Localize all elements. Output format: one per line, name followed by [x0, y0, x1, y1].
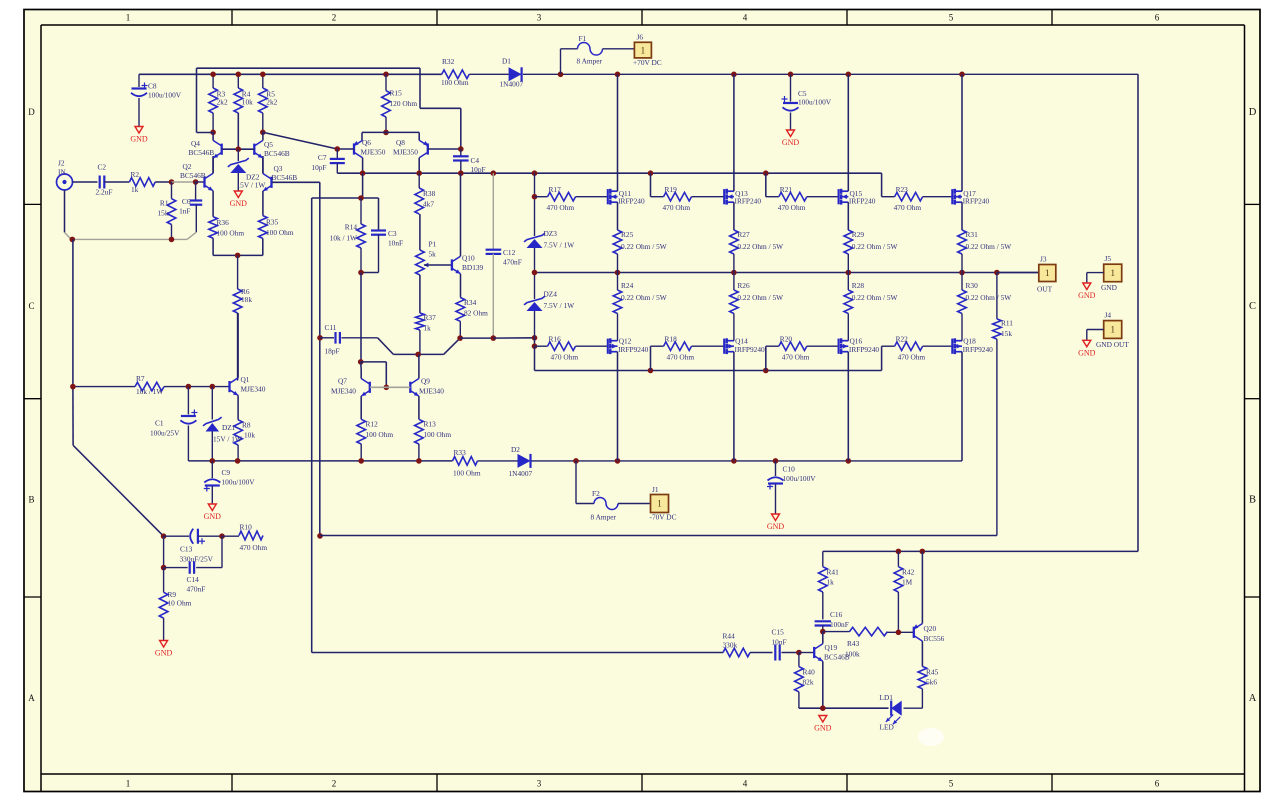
wire — [492, 254, 494, 338]
wire — [360, 444, 362, 461]
sheet frame inner — [40, 25, 42, 792]
svg-text:1M: 1M — [902, 578, 913, 587]
wire base bus — [222, 148, 255, 150]
svg-text:R32: R32 — [442, 57, 455, 66]
svg-text:R42: R42 — [902, 568, 915, 577]
svg-text:R40: R40 — [803, 668, 816, 677]
wire — [212, 156, 214, 173]
svg-text:470 Ohm: 470 Ohm — [778, 203, 806, 212]
wire input return — [64, 190, 66, 232]
wire — [847, 74, 849, 191]
svg-text:Q7: Q7 — [338, 377, 347, 386]
junction — [383, 72, 389, 78]
resistor R31 — [958, 230, 967, 254]
wire — [822, 661, 824, 708]
ground — [1083, 340, 1091, 347]
junction — [458, 170, 464, 176]
transistor Q2 — [203, 176, 205, 187]
wire diagonal to C13 — [73, 445, 164, 536]
svg-text:R23: R23 — [896, 185, 909, 194]
resistor R44 — [723, 648, 750, 657]
wire — [320, 337, 334, 339]
transistor Q20 — [913, 627, 915, 638]
svg-text:MJE340: MJE340 — [419, 387, 444, 396]
wire — [361, 272, 379, 274]
wire — [576, 503, 594, 505]
junction — [169, 179, 175, 185]
wire — [385, 117, 387, 132]
wire — [361, 197, 379, 199]
wire — [262, 74, 264, 88]
svg-text:IRFP240: IRFP240 — [735, 196, 762, 205]
svg-text:R1: R1 — [160, 199, 169, 208]
svg-text:C13: C13 — [180, 545, 193, 554]
wire — [196, 68, 198, 132]
junction — [210, 458, 216, 464]
svg-text:GND: GND — [767, 522, 785, 531]
svg-text:R19: R19 — [665, 185, 678, 194]
wire — [212, 191, 214, 217]
svg-text:10 Ohm: 10 Ohm — [168, 599, 192, 608]
svg-text:6: 6 — [1155, 13, 1160, 23]
svg-text:4k7: 4k7 — [423, 200, 434, 209]
svg-text:0.22 Ohm / 5W: 0.22 Ohm / 5W — [621, 293, 667, 302]
frame row ticks — [24, 203, 41, 205]
wire — [469, 73, 508, 75]
wire — [196, 567, 222, 569]
wire — [576, 345, 608, 347]
wire — [164, 386, 230, 388]
svg-text:1: 1 — [126, 13, 131, 23]
diode D2 — [518, 454, 531, 468]
junction — [532, 170, 538, 176]
junction — [358, 270, 364, 276]
svg-text:D: D — [28, 107, 35, 117]
wire — [961, 254, 963, 273]
wire — [650, 173, 652, 197]
svg-text:R26: R26 — [737, 281, 750, 290]
wire — [961, 352, 963, 461]
junction — [416, 170, 422, 176]
svg-text:D1: D1 — [502, 57, 511, 66]
wire — [921, 551, 923, 623]
wire — [617, 202, 619, 230]
frame column ticks — [231, 10, 233, 26]
svg-text:470 Ohm: 470 Ohm — [898, 353, 926, 362]
wire — [196, 181, 205, 183]
wire — [360, 362, 363, 370]
svg-text:BC546B: BC546B — [189, 148, 215, 157]
wire — [535, 196, 548, 198]
wire — [996, 273, 998, 319]
wire — [195, 182, 197, 200]
wire — [617, 314, 619, 341]
wire — [312, 652, 723, 654]
wire — [766, 345, 779, 347]
svg-text:Q9: Q9 — [421, 377, 430, 386]
junction — [358, 458, 364, 464]
wire — [237, 173, 239, 191]
wire — [424, 264, 452, 266]
wire — [961, 202, 963, 230]
svg-text:Q10: Q10 — [462, 254, 475, 263]
wire — [419, 68, 421, 108]
svg-text:R31: R31 — [966, 230, 979, 239]
watermark — [918, 728, 944, 746]
wire — [823, 631, 850, 633]
wire — [847, 352, 849, 461]
svg-text:LD1: LD1 — [880, 693, 894, 702]
wire — [733, 314, 735, 341]
wire — [1087, 272, 1104, 274]
junction — [458, 146, 464, 152]
capacitor C3 — [371, 229, 386, 231]
svg-text:2k2: 2k2 — [217, 98, 228, 107]
diode D1 — [509, 67, 522, 81]
junction — [358, 359, 364, 365]
transistor Q10 — [451, 259, 453, 270]
wire — [887, 631, 913, 633]
ground — [135, 127, 143, 134]
svg-text:C3: C3 — [388, 229, 397, 238]
svg-text:100 Ohm: 100 Ohm — [366, 430, 394, 439]
svg-text:C1: C1 — [155, 419, 164, 428]
wire — [493, 337, 534, 339]
junction — [615, 270, 621, 276]
wire — [692, 196, 725, 198]
svg-text:IN: IN — [58, 168, 66, 177]
wire — [961, 314, 963, 341]
svg-text:R45: R45 — [926, 668, 939, 677]
svg-text:MJE340: MJE340 — [331, 387, 356, 396]
svg-text:5: 5 — [949, 13, 954, 23]
resistor R33 — [453, 457, 478, 466]
junction — [193, 179, 199, 185]
svg-text:5k6: 5k6 — [926, 678, 937, 687]
wire — [237, 149, 239, 161]
svg-text:OUT: OUT — [1037, 285, 1053, 294]
wire — [847, 254, 849, 273]
svg-text:B: B — [28, 495, 34, 505]
wire — [775, 461, 777, 476]
svg-text:470 Ohm: 470 Ohm — [551, 353, 579, 362]
wire — [897, 592, 899, 632]
wire — [603, 48, 635, 50]
svg-text:GND: GND — [1078, 291, 1096, 300]
svg-text:F1: F1 — [579, 34, 587, 43]
wire — [213, 254, 263, 256]
wire — [237, 113, 239, 149]
junction — [796, 650, 802, 656]
svg-text:1: 1 — [1110, 325, 1115, 335]
junction — [896, 630, 902, 636]
junction — [161, 565, 167, 571]
svg-text:A: A — [1249, 693, 1257, 704]
svg-text:1k: 1k — [131, 185, 139, 194]
svg-text:470 Ohm: 470 Ohm — [663, 203, 691, 212]
svg-text:3: 3 — [537, 779, 542, 789]
wire — [881, 346, 883, 370]
resistor R14 — [357, 224, 366, 248]
wire — [807, 196, 839, 198]
wire — [393, 353, 443, 355]
junction — [384, 385, 390, 391]
wire — [312, 197, 361, 199]
wire — [65, 232, 72, 239]
svg-text:10k: 10k — [244, 431, 255, 440]
wire — [822, 551, 824, 566]
junction — [731, 72, 737, 78]
transistor Q6 — [353, 143, 355, 154]
svg-text:470 Ohm: 470 Ohm — [547, 203, 575, 212]
svg-text:BC546B: BC546B — [264, 149, 290, 158]
svg-text:15k: 15k — [157, 209, 168, 218]
wire — [523, 73, 1138, 75]
svg-text:IRFP9240: IRFP9240 — [963, 345, 994, 354]
svg-text:BC546B: BC546B — [272, 173, 298, 182]
svg-text:R15: R15 — [390, 89, 403, 98]
svg-text:R36: R36 — [217, 218, 230, 227]
svg-text:GND: GND — [814, 724, 832, 733]
resistor R8 — [234, 420, 243, 445]
wire — [419, 275, 421, 313]
wire — [782, 652, 799, 654]
svg-text:R13: R13 — [424, 420, 437, 429]
svg-text:R30: R30 — [966, 281, 979, 290]
wire — [342, 337, 378, 339]
svg-text:C16: C16 — [830, 610, 843, 619]
svg-text:R11: R11 — [1001, 319, 1013, 328]
svg-text:BC556: BC556 — [924, 634, 945, 643]
transistor Q14 — [723, 339, 725, 354]
svg-text:3: 3 — [537, 13, 542, 23]
svg-text:Q19: Q19 — [825, 643, 838, 652]
svg-text:100nF: 100nF — [830, 620, 849, 629]
connector J4 — [1104, 321, 1122, 339]
junction — [959, 72, 965, 78]
wire — [138, 74, 140, 87]
wire — [733, 202, 735, 230]
wire — [221, 536, 223, 567]
svg-text:1: 1 — [657, 499, 662, 509]
svg-text:GND: GND — [1101, 283, 1118, 292]
wire — [822, 626, 824, 632]
wire — [692, 345, 725, 347]
wire — [460, 337, 493, 339]
svg-text:IRFP9240: IRFP9240 — [735, 345, 766, 354]
svg-text:100u/100V: 100u/100V — [148, 91, 182, 100]
junction — [615, 72, 621, 78]
svg-text:IRFP240: IRFP240 — [618, 196, 645, 205]
svg-text:Q2: Q2 — [183, 162, 192, 171]
wire — [163, 536, 165, 567]
wire — [336, 163, 338, 173]
svg-text:6: 6 — [1155, 779, 1160, 789]
wire — [172, 181, 196, 183]
svg-text:J1: J1 — [652, 485, 659, 494]
svg-text:R34: R34 — [464, 298, 477, 307]
wire — [996, 339, 998, 535]
svg-text:470 Ohm: 470 Ohm — [667, 353, 695, 362]
svg-text:470 Ohm: 470 Ohm — [782, 353, 810, 362]
wire — [1137, 74, 1139, 551]
svg-text:R18: R18 — [665, 335, 678, 344]
svg-text:C11: C11 — [325, 323, 337, 332]
junction — [573, 458, 579, 464]
svg-text:2: 2 — [332, 13, 337, 23]
svg-text:C2: C2 — [98, 163, 107, 172]
svg-text:15V / 1W: 15V / 1W — [213, 435, 242, 444]
svg-text:330k: 330k — [723, 641, 738, 650]
wire — [237, 445, 239, 461]
svg-text:100u/100V: 100u/100V — [783, 474, 817, 483]
node lower gate bus — [535, 370, 882, 372]
wire — [362, 131, 419, 133]
wire — [618, 503, 651, 505]
wire — [155, 181, 171, 183]
wire — [164, 535, 189, 537]
wire Q5 collector diagonal — [263, 132, 338, 149]
junction — [615, 458, 621, 464]
wire — [361, 361, 387, 363]
svg-text:0.22 Ohm / 5W: 0.22 Ohm / 5W — [852, 293, 898, 302]
svg-text:Q6: Q6 — [362, 138, 371, 147]
junction — [532, 343, 538, 349]
wire — [211, 487, 213, 505]
svg-text:100 Ohm: 100 Ohm — [424, 430, 452, 439]
wire — [419, 214, 421, 250]
junction — [994, 270, 1000, 276]
junction — [763, 170, 769, 176]
svg-text:C: C — [1249, 301, 1256, 312]
wire Q8 base — [428, 148, 461, 150]
resistor R29 — [844, 230, 853, 254]
transistor Q15 — [838, 189, 840, 204]
wire — [460, 161, 462, 173]
wire — [617, 74, 619, 191]
resistor R35 — [259, 216, 268, 239]
transistor Q16 — [838, 339, 840, 354]
wire — [138, 98, 140, 127]
wire — [212, 113, 214, 132]
svg-text:R24: R24 — [621, 281, 634, 290]
wire — [222, 535, 239, 537]
svg-text:10k / 1W: 10k / 1W — [136, 387, 163, 396]
wire Q6 base — [337, 148, 354, 150]
svg-text:R38: R38 — [423, 189, 436, 198]
svg-text:Q3: Q3 — [274, 164, 283, 173]
svg-text:330uF/25V: 330uF/25V — [180, 555, 214, 564]
wire — [822, 592, 824, 619]
svg-text:1: 1 — [641, 45, 646, 55]
svg-text:R10: R10 — [240, 523, 253, 532]
node LED return — [799, 707, 889, 709]
wire — [237, 255, 239, 289]
svg-text:R20: R20 — [780, 335, 793, 344]
wire — [847, 273, 849, 291]
svg-text:R14: R14 — [345, 223, 358, 232]
svg-text:100 Ohm: 100 Ohm — [453, 469, 481, 478]
connector J1 — [651, 495, 669, 513]
wire — [360, 396, 362, 419]
svg-text:GND: GND — [204, 512, 222, 521]
svg-text:R22: R22 — [896, 335, 909, 344]
wire Q3 base to feedback — [272, 181, 320, 183]
wire feedback drop — [72, 239, 74, 386]
wire — [561, 48, 578, 50]
resistor R12 — [357, 419, 366, 444]
wire — [419, 330, 421, 354]
transistor Q8 — [427, 143, 429, 154]
wire — [921, 689, 923, 708]
svg-text:100 Ohm: 100 Ohm — [217, 229, 245, 238]
svg-text:10nF: 10nF — [772, 638, 787, 647]
junction — [648, 170, 654, 176]
resistor R13 — [415, 419, 424, 444]
resistor R2 — [129, 178, 155, 187]
svg-text:J5: J5 — [1105, 254, 1112, 263]
wire — [1086, 330, 1088, 341]
junction — [416, 458, 422, 464]
junction — [920, 549, 926, 555]
svg-text:DZ1: DZ1 — [222, 423, 236, 432]
wire — [262, 113, 264, 132]
wire — [163, 618, 165, 640]
wire — [211, 461, 213, 478]
wire — [362, 173, 364, 198]
wire — [534, 338, 536, 346]
wire — [360, 273, 362, 362]
wire — [262, 132, 264, 140]
wire — [361, 132, 363, 140]
wire — [847, 202, 849, 230]
wire — [1087, 329, 1104, 331]
junction — [169, 237, 175, 243]
svg-text:MJE350: MJE350 — [393, 148, 418, 157]
wire — [766, 196, 779, 198]
svg-text:C10: C10 — [783, 465, 796, 474]
svg-text:MJE350: MJE350 — [361, 148, 386, 157]
svg-text:IRFP240: IRFP240 — [849, 196, 876, 205]
junction — [846, 72, 852, 78]
svg-text:F2: F2 — [592, 489, 600, 498]
wire — [904, 707, 923, 709]
wire — [733, 74, 735, 191]
svg-text:18k: 18k — [241, 295, 252, 304]
svg-text:2: 2 — [332, 779, 337, 789]
junction — [317, 533, 323, 539]
svg-text:1nF: 1nF — [179, 207, 190, 216]
svg-text:100u/25V: 100u/25V — [150, 429, 180, 438]
svg-text:Q5: Q5 — [264, 140, 273, 149]
ground — [208, 504, 216, 511]
wire — [378, 338, 394, 355]
svg-text:2k2: 2k2 — [266, 98, 277, 107]
resistor R32 — [442, 70, 470, 79]
wire — [336, 149, 338, 159]
junction — [896, 549, 902, 555]
svg-text:470 Ohm: 470 Ohm — [240, 543, 268, 552]
wire — [212, 238, 214, 255]
svg-text:Q1: Q1 — [241, 375, 250, 384]
wire — [262, 158, 264, 173]
wire — [651, 196, 664, 198]
wire — [420, 107, 461, 109]
svg-text:100u/100V: 100u/100V — [222, 478, 256, 487]
connector J6 — [634, 42, 651, 58]
transistor Q4 — [221, 144, 223, 155]
junction — [731, 270, 737, 276]
